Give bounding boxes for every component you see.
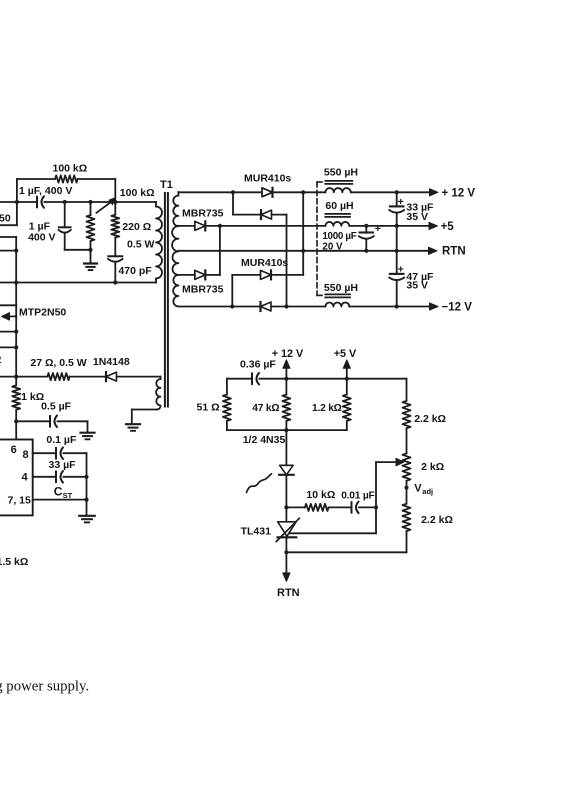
svg-text:4: 4 — [22, 471, 29, 483]
svg-text:47 kΩ: 47 kΩ — [252, 403, 279, 414]
svg-text:100 kΩ: 100 kΩ — [53, 163, 88, 175]
svg-text:MUR410s: MUR410s — [244, 173, 291, 185]
svg-text:+5: +5 — [441, 221, 455, 233]
svg-text:2 kΩ: 2 kΩ — [421, 461, 444, 473]
svg-text:−12 V: −12 V — [442, 301, 473, 313]
svg-text:1/2 4N35: 1/2 4N35 — [243, 434, 286, 446]
svg-text:0.1 µF: 0.1 µF — [46, 434, 77, 446]
svg-text:2.2 kΩ: 2.2 kΩ — [421, 514, 453, 526]
svg-text:TL431: TL431 — [241, 525, 272, 537]
svg-text:+: + — [398, 196, 404, 208]
svg-text:10 kΩ: 10 kΩ — [306, 489, 335, 501]
svg-text:50: 50 — [0, 213, 11, 225]
svg-text:1 µF, 400 V: 1 µF, 400 V — [19, 185, 72, 197]
svg-text:0.5 W: 0.5 W — [127, 239, 155, 251]
svg-text:0.01 µF: 0.01 µF — [341, 491, 374, 502]
svg-text:8: 8 — [23, 449, 29, 461]
svg-text:220 Ω: 220 Ω — [122, 221, 151, 233]
svg-text:100 kΩ: 100 kΩ — [120, 187, 155, 199]
svg-text:RTN: RTN — [277, 587, 300, 599]
svg-text:ST: ST — [63, 491, 73, 500]
svg-text:35 V: 35 V — [406, 279, 428, 291]
svg-text:MBR735: MBR735 — [182, 284, 224, 296]
svg-text:1.5 kΩ: 1.5 kΩ — [0, 556, 28, 568]
svg-text:550 µH: 550 µH — [324, 167, 358, 179]
svg-text:51 Ω: 51 Ω — [196, 401, 219, 413]
svg-text:2.2 kΩ: 2.2 kΩ — [414, 413, 446, 425]
svg-text:adj: adj — [422, 487, 433, 496]
svg-text:V: V — [414, 482, 422, 494]
svg-text:1.2 kΩ: 1.2 kΩ — [312, 403, 342, 414]
svg-text:550 µH: 550 µH — [324, 282, 358, 294]
svg-text:35 V: 35 V — [406, 211, 428, 223]
svg-text:0.36 µF: 0.36 µF — [240, 359, 276, 371]
svg-text:1000 µF: 1000 µF — [322, 231, 356, 242]
svg-text:MUR410s: MUR410s — [241, 257, 288, 269]
svg-text:20 V: 20 V — [322, 242, 343, 253]
svg-text:1N4148: 1N4148 — [93, 356, 130, 368]
svg-text:27 Ω, 0.5 W: 27 Ω, 0.5 W — [30, 357, 86, 369]
svg-text:2: 2 — [0, 354, 2, 366]
svg-text:+ 12 V: + 12 V — [442, 187, 476, 199]
svg-text:g power supply.: g power supply. — [0, 678, 89, 694]
svg-text:T1: T1 — [160, 179, 173, 191]
svg-text:+: + — [398, 264, 404, 276]
svg-text:400 V: 400 V — [28, 232, 55, 244]
svg-text:60 µH: 60 µH — [325, 200, 353, 212]
svg-text:+5 V: +5 V — [334, 348, 357, 360]
svg-text:7, 15: 7, 15 — [8, 494, 32, 506]
svg-text:33 µF: 33 µF — [49, 459, 77, 471]
svg-text:+: + — [375, 223, 381, 235]
svg-text:C: C — [54, 484, 63, 498]
svg-text:1 µF: 1 µF — [29, 220, 51, 232]
svg-text:0.5 µF: 0.5 µF — [41, 401, 72, 413]
svg-text:MTP2N50: MTP2N50 — [19, 307, 66, 319]
svg-text:RTN: RTN — [442, 246, 466, 258]
svg-text:470 pF: 470 pF — [118, 265, 152, 277]
svg-text:+ 12 V: + 12 V — [272, 348, 304, 360]
svg-text:MBR735: MBR735 — [182, 208, 224, 220]
svg-text:6: 6 — [11, 444, 17, 456]
